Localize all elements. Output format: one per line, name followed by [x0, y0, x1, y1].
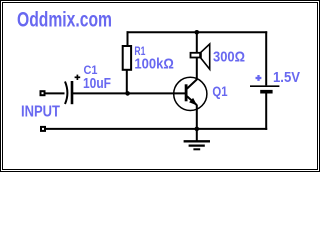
wire battery minus to bottom rail	[265, 93, 267, 129]
wire C1 to base node	[73, 92, 186, 94]
speaker LS1	[191, 44, 210, 69]
transistor Q1	[174, 77, 207, 110]
wire R1 bottom to base node	[126, 70, 128, 93]
plus sign battery polarity	[256, 75, 262, 81]
svg-text:100kΩ: 100kΩ	[134, 56, 174, 73]
wire emitter to bottom rail	[196, 105, 198, 130]
junction dot emitter-ground	[195, 127, 200, 132]
svg-text:300Ω: 300Ω	[213, 49, 245, 66]
negative bottom rail wire	[46, 128, 267, 130]
svg-text:1.5V: 1.5V	[273, 69, 300, 86]
ground	[184, 129, 210, 149]
input terminal top	[41, 91, 45, 95]
wire input to C1	[46, 92, 65, 94]
wire R1 top to positive rail	[127, 31, 129, 46]
wire speaker branch rail to collector	[196, 32, 198, 80]
svg-text:Oddmix.com: Oddmix.com	[17, 8, 112, 32]
positive top rail wire	[127, 31, 268, 33]
junction dot top rail to speaker	[195, 30, 200, 35]
resistor R1	[123, 46, 131, 70]
svg-text:10uF: 10uF	[83, 75, 111, 92]
capacitor C1	[65, 81, 72, 104]
wire positive rail to battery plus	[265, 31, 267, 85]
svg-text:Q1: Q1	[212, 83, 227, 99]
junction dot base-R1	[125, 91, 130, 96]
input terminal bottom	[41, 127, 45, 131]
battery BT1	[250, 86, 279, 92]
svg-text:INPUT: INPUT	[21, 104, 60, 121]
plus sign C1 polarity	[75, 75, 81, 80]
